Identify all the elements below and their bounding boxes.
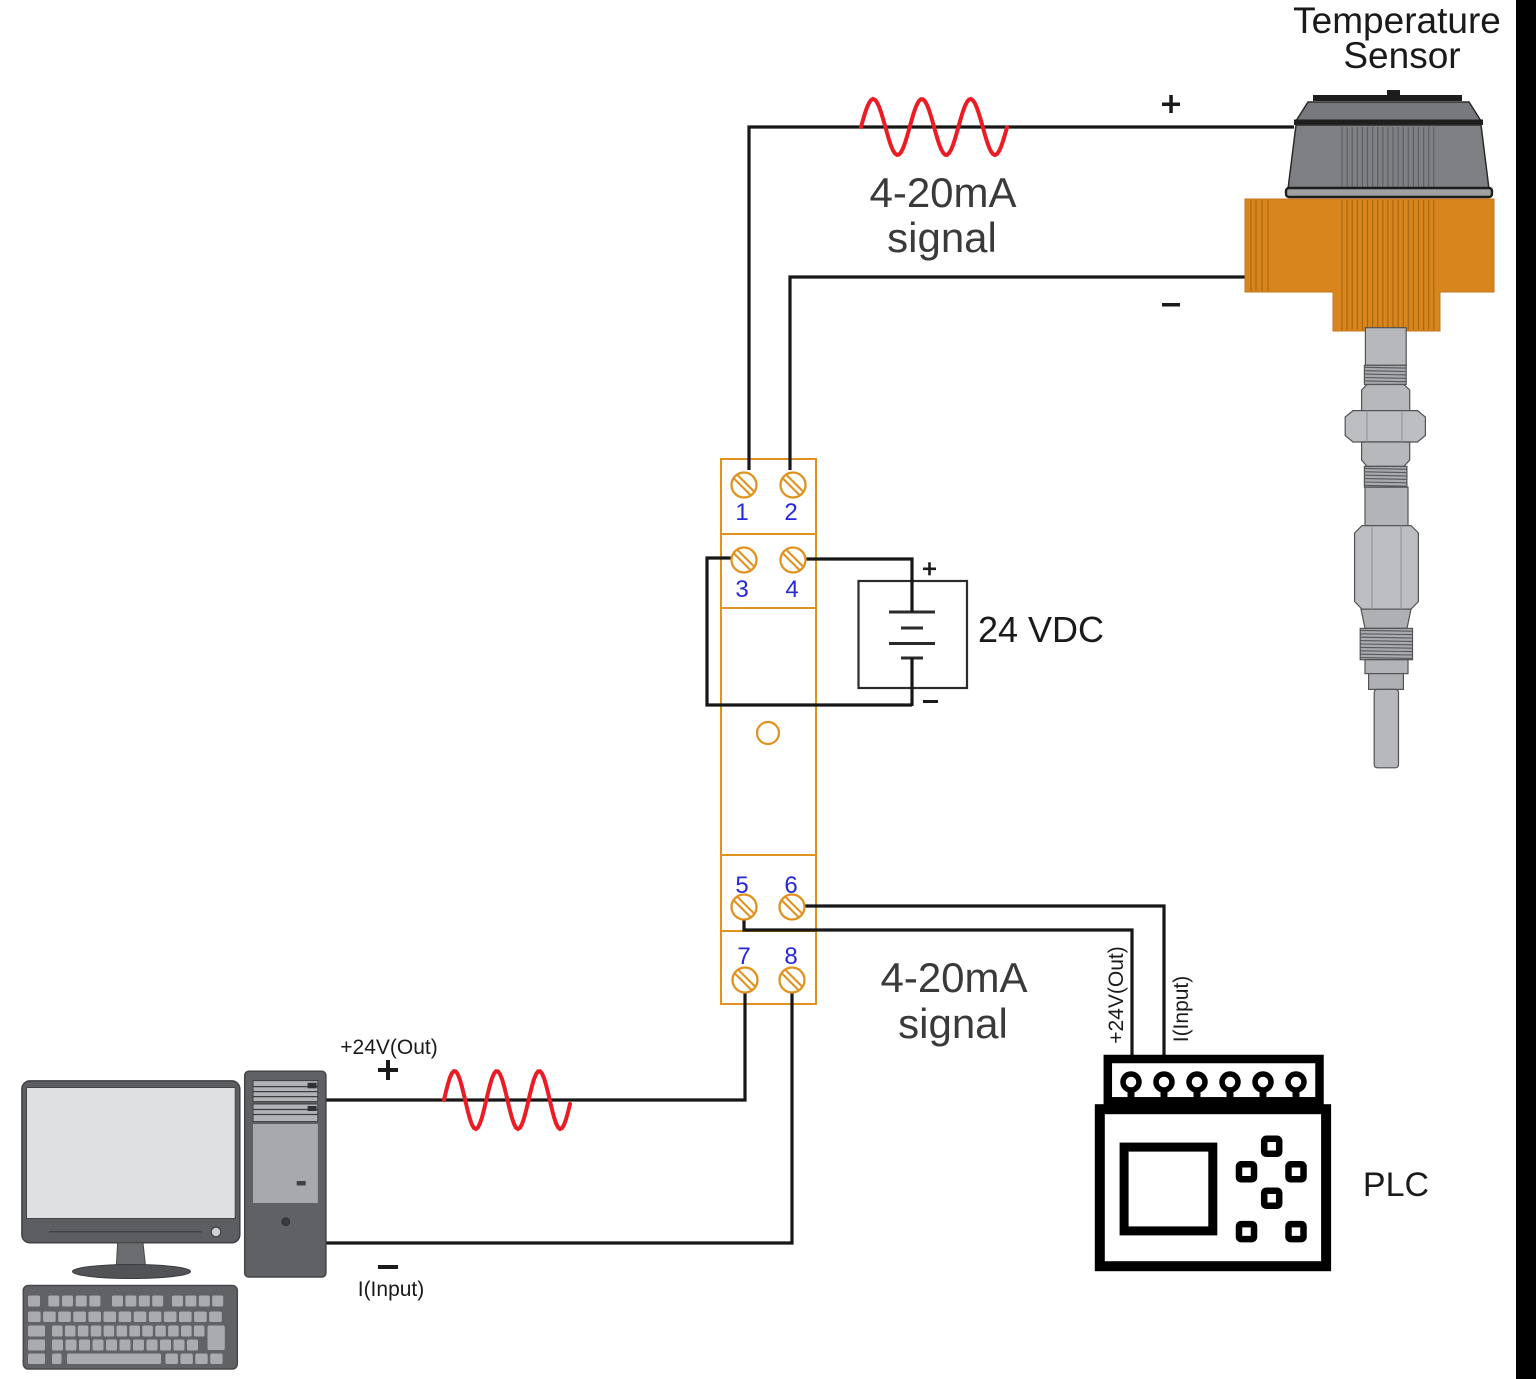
svg-text:3: 3: [735, 576, 748, 603]
svg-text:4-20mA: 4-20mA: [869, 169, 1016, 216]
svg-text:PLC: PLC: [1363, 1166, 1429, 1204]
svg-text:8: 8: [784, 943, 797, 970]
svg-text:+24V(Out): +24V(Out): [1105, 946, 1128, 1043]
svg-text:5: 5: [735, 872, 748, 899]
svg-text:Sensor: Sensor: [1343, 35, 1460, 76]
svg-text:1: 1: [735, 499, 748, 526]
svg-text:24 VDC: 24 VDC: [978, 609, 1104, 650]
svg-text:signal: signal: [887, 214, 997, 261]
svg-text:I(Input): I(Input): [358, 1278, 425, 1301]
svg-text:I(Input): I(Input): [1170, 976, 1193, 1043]
svg-text:2: 2: [784, 499, 797, 526]
svg-text:7: 7: [737, 943, 750, 970]
svg-text:+24V(Out): +24V(Out): [340, 1036, 437, 1059]
svg-text:4: 4: [785, 576, 798, 603]
svg-text:6: 6: [784, 872, 797, 899]
svg-text:signal: signal: [898, 1000, 1008, 1047]
svg-text:4-20mA: 4-20mA: [880, 954, 1027, 1001]
